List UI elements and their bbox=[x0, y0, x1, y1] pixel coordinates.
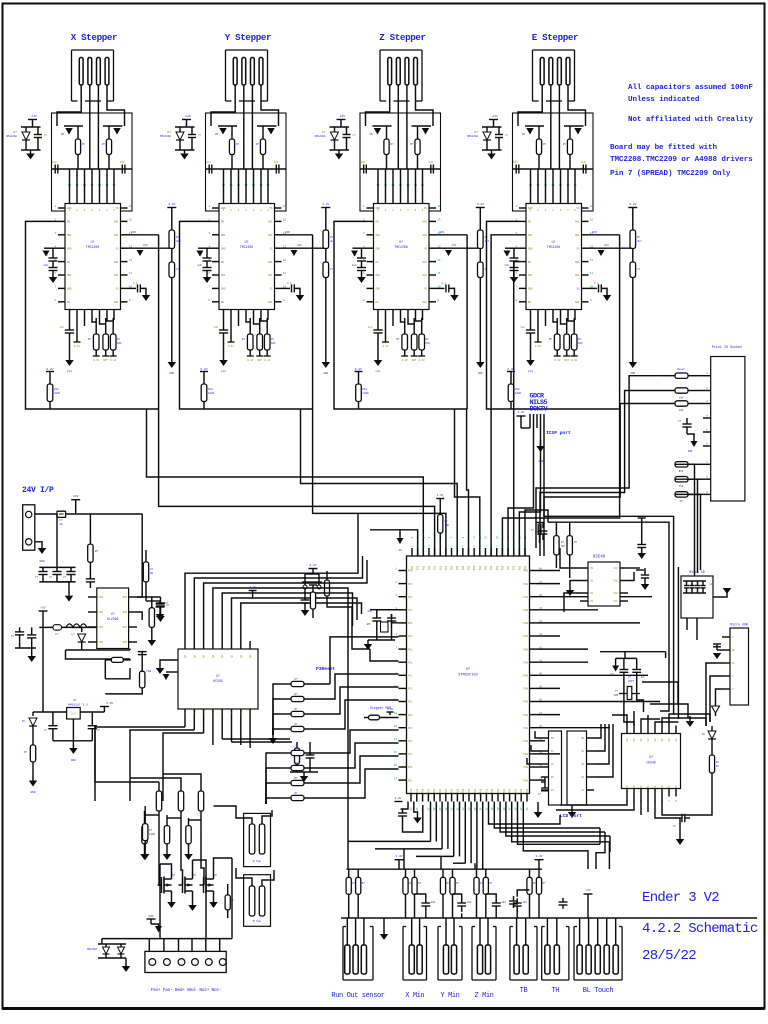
svg-text:PB1: PB1 bbox=[445, 565, 448, 570]
svg-text:MS1: MS1 bbox=[67, 274, 72, 277]
series cap C_Z1 on bus bbox=[363, 165, 365, 174]
svg-text:1uF: 1uF bbox=[429, 161, 434, 164]
pullup resistors R? R? bbox=[529, 869, 531, 877]
CH340 top wires bbox=[612, 715, 627, 726]
svg-text:R?: R? bbox=[256, 143, 260, 146]
bypass cap right of U_E bbox=[589, 287, 598, 289]
svg-text:GND: GND bbox=[478, 372, 483, 375]
svg-text:BL Touch: BL Touch bbox=[583, 987, 614, 995]
stepper driver IC U_X TMC2208 bbox=[65, 204, 121, 310]
svg-text:TMC2208: TMC2208 bbox=[86, 245, 99, 249]
svg-text:PA9: PA9 bbox=[523, 701, 528, 704]
svg-text:C?: C? bbox=[49, 576, 53, 579]
93C46 right pins bbox=[620, 567, 628, 569]
divider resistor R_Ed bbox=[630, 262, 636, 278]
thick bottom border line bbox=[3, 1007, 765, 1010]
93C46 left pins bbox=[580, 567, 588, 569]
svg-text:R?: R? bbox=[317, 597, 321, 600]
svg-text:EN: EN bbox=[376, 301, 380, 304]
driver support box X bbox=[52, 113, 133, 211]
svg-text:6.8V: 6.8V bbox=[355, 368, 362, 371]
svg-text:Z Min: Z Min bbox=[474, 992, 493, 1000]
ground below caps Z bbox=[357, 277, 366, 283]
svg-text:4k7: 4k7 bbox=[637, 239, 642, 243]
svg-text:PA1: PA1 bbox=[433, 788, 436, 793]
svg-text:R?: R? bbox=[82, 143, 86, 146]
svg-text:C?: C? bbox=[353, 254, 357, 257]
svg-text:11: 11 bbox=[283, 272, 287, 275]
resistor cap at U? output bbox=[295, 748, 300, 764]
sense resistors below U_X bbox=[95, 318, 97, 334]
svg-text:VS: VS bbox=[424, 207, 428, 210]
svg-text:16: 16 bbox=[438, 205, 442, 208]
svg-text:SMAJ26A: SMAJ26A bbox=[87, 948, 98, 951]
flyback TVS diodes bbox=[101, 939, 103, 944]
svg-text:0.1V: 0.1V bbox=[247, 359, 254, 362]
micro SD ground bbox=[713, 588, 727, 597]
connector X Min bbox=[402, 927, 404, 981]
svg-text:VS: VS bbox=[576, 207, 580, 210]
svg-text:Pin 7 (SPREAD) TMC2209 Only: Pin 7 (SPREAD) TMC2209 Only bbox=[610, 170, 731, 178]
TVS diode D_E with cap, stepper supply protection bbox=[489, 119, 498, 121]
svg-text:R?: R? bbox=[24, 751, 28, 754]
svg-text:PB1: PB1 bbox=[473, 565, 476, 570]
socket ground arrow bbox=[687, 434, 694, 441]
svg-text:11: 11 bbox=[129, 272, 133, 275]
svg-text:16: 16 bbox=[283, 205, 287, 208]
svg-text:PA9: PA9 bbox=[523, 714, 528, 717]
wires connector Y to driver box bbox=[211, 85, 235, 126]
svg-text:EN: EN bbox=[221, 301, 225, 304]
svg-text:R?: R? bbox=[294, 792, 298, 795]
crystal load cap C?b bbox=[636, 658, 638, 669]
24V input ground bbox=[38, 548, 47, 554]
svg-text:PA9: PA9 bbox=[523, 727, 528, 730]
svg-text:PA1: PA1 bbox=[485, 788, 488, 793]
svg-text:PB1: PB1 bbox=[513, 565, 516, 570]
print IO lower wires descending bbox=[694, 464, 696, 576]
svg-text:PB1: PB1 bbox=[417, 565, 420, 570]
Y Stepper motor connector J_Y bbox=[226, 49, 268, 51]
3.3V tick bbox=[387, 711, 394, 713]
power LED D? bbox=[33, 711, 43, 713]
svg-text:24V: 24V bbox=[31, 115, 37, 118]
svg-text:TMC2208: TMC2208 bbox=[240, 245, 253, 249]
feedback resistor R? bbox=[88, 544, 93, 562]
svg-text:GND: GND bbox=[221, 247, 226, 250]
svg-text:TH: TH bbox=[551, 987, 559, 995]
svg-text:28/5/22: 28/5/22 bbox=[642, 948, 696, 964]
svg-text:C?: C? bbox=[628, 676, 632, 679]
BOOT0 pulldown resistor bbox=[436, 498, 444, 500]
svg-text:VIN: VIN bbox=[99, 596, 104, 599]
svg-text:DIR: DIR bbox=[592, 231, 597, 234]
stepper driver IC U_Y TMC2208 bbox=[219, 204, 275, 310]
svg-text:15: 15 bbox=[590, 219, 594, 222]
svg-text:22Pf: 22Pf bbox=[628, 680, 635, 683]
U? bottom wire collectors bbox=[95, 727, 185, 793]
svg-text:GND: GND bbox=[324, 372, 329, 375]
MOSFET source grounds bbox=[171, 897, 173, 902]
series cap C_Z2 on bus bbox=[430, 165, 432, 174]
svg-text:GND: GND bbox=[631, 372, 636, 375]
svg-text:C?: C? bbox=[678, 420, 682, 423]
reset ground bbox=[301, 610, 310, 616]
svg-text:PA1: PA1 bbox=[480, 788, 483, 793]
LCD port header EXP1 bbox=[549, 731, 562, 805]
svg-text:OA1: OA1 bbox=[268, 261, 273, 264]
ground below cap Y bbox=[219, 360, 228, 366]
wires box Y to driver IC bbox=[223, 169, 225, 204]
LCD port wires bbox=[535, 731, 541, 738]
svg-text:PC1: PC1 bbox=[408, 753, 413, 756]
cap C_Eb below IC bbox=[530, 318, 532, 330]
ground below caps E bbox=[510, 277, 519, 283]
shift register IC U? HC595 bbox=[178, 649, 258, 709]
svg-text:0.1V: 0.1V bbox=[554, 359, 561, 362]
svg-text:3N: 3N bbox=[398, 549, 402, 552]
bus wire E direct 1 bbox=[491, 235, 519, 556]
bypass cap right of U_X bbox=[128, 287, 137, 289]
MCU top-left entry wire bbox=[370, 530, 418, 556]
svg-text:3.3V: 3.3V bbox=[437, 494, 444, 497]
svg-text:PB1: PB1 bbox=[428, 565, 431, 570]
svg-text:12M: 12M bbox=[613, 694, 618, 697]
bottom pin wires of U_E bbox=[530, 310, 532, 319]
svg-text:4.2.2 Schematic: 4.2.2 Schematic bbox=[642, 921, 758, 937]
ground for TVS Z bbox=[338, 150, 340, 154]
svg-text:PA1: PA1 bbox=[445, 788, 448, 793]
svg-text:C?: C? bbox=[538, 793, 542, 796]
svg-text:PA1: PA1 bbox=[410, 788, 413, 793]
series resistor R?5 to socket bbox=[675, 477, 688, 482]
svg-text:C?: C? bbox=[11, 635, 15, 638]
stub with tick E bbox=[537, 318, 539, 342]
bus wire Z aux bbox=[455, 409, 480, 556]
svg-text:12: 12 bbox=[129, 259, 133, 262]
svg-text:F?: F? bbox=[59, 519, 63, 522]
cap C_Xb below IC bbox=[69, 318, 71, 330]
svg-text:3.3V: 3.3V bbox=[168, 203, 175, 206]
ICSP wires to MCU bbox=[508, 428, 533, 556]
output bus wires bbox=[102, 938, 232, 940]
svg-text:PB1: PB1 bbox=[434, 565, 437, 570]
left sense resistor bbox=[143, 824, 148, 841]
svg-text:PA1: PA1 bbox=[427, 788, 430, 793]
IC U_E right pins bbox=[582, 207, 589, 209]
svg-text:OUT: OUT bbox=[123, 611, 128, 614]
svg-text:PC1: PC1 bbox=[408, 779, 413, 782]
svg-text:24V I/P: 24V I/P bbox=[22, 486, 54, 495]
svg-text:PA9: PA9 bbox=[523, 766, 528, 769]
svg-text:KAF: KAF bbox=[271, 342, 276, 345]
svg-text:104: 104 bbox=[501, 901, 506, 904]
decoupling caps left of U_X bbox=[44, 247, 58, 249]
series resistor R?3 to socket bbox=[675, 401, 688, 406]
svg-text:24V: 24V bbox=[185, 115, 191, 118]
24V source bar bbox=[147, 918, 156, 920]
svg-text:R?: R? bbox=[149, 829, 153, 832]
pullup resistors R? R? bbox=[476, 869, 478, 877]
bottom pin wires of U_X bbox=[69, 310, 71, 319]
svg-text:(H): (H) bbox=[375, 369, 381, 373]
svg-text:PA1: PA1 bbox=[491, 788, 494, 793]
svg-text:OA1: OA1 bbox=[422, 221, 427, 224]
svg-text:R18: R18 bbox=[54, 388, 59, 391]
wires connector Z to driver box bbox=[366, 85, 390, 126]
svg-text:R?: R? bbox=[88, 338, 92, 341]
svg-text:0.1: 0.1 bbox=[287, 282, 292, 285]
CH340 decoupling cap bbox=[680, 817, 682, 819]
svg-text:CS: CS bbox=[590, 592, 594, 595]
catch diode D? bbox=[81, 627, 83, 632]
svg-text:100: 100 bbox=[679, 397, 684, 400]
MOSFET drain wires bbox=[160, 864, 172, 873]
svg-text:0.1V: 0.1V bbox=[264, 359, 271, 362]
reset pull resistor bbox=[325, 580, 330, 596]
stub with tick Y bbox=[230, 318, 232, 342]
svg-text:R#T: R#T bbox=[412, 359, 417, 362]
svg-text:OA1: OA1 bbox=[114, 221, 119, 224]
power arrow left of U? bbox=[166, 671, 178, 673]
micro SD caps bbox=[686, 581, 688, 586]
bus wire across driver box E bbox=[513, 168, 593, 170]
svg-text:VCC: VCC bbox=[613, 592, 618, 595]
wire U_X pin to drop line bbox=[128, 234, 159, 236]
svg-text:R?: R? bbox=[391, 143, 395, 146]
wire U_Z pin to drop line bbox=[436, 234, 467, 236]
U? top pins bbox=[184, 641, 186, 649]
svg-text:GND: GND bbox=[528, 247, 533, 250]
svg-text:R?: R? bbox=[549, 338, 553, 341]
svg-text:VCC: VCC bbox=[613, 600, 618, 603]
svg-text:U?: U? bbox=[73, 699, 77, 702]
svg-text:GND: GND bbox=[39, 560, 44, 563]
svg-text:1uF: 1uF bbox=[43, 264, 48, 267]
svg-text:PC1: PC1 bbox=[408, 688, 413, 691]
pull-down grounds bbox=[144, 851, 146, 854]
svg-text:1uF: 1uF bbox=[513, 161, 518, 164]
svg-text:KAF: KAF bbox=[578, 342, 583, 345]
svg-text:PC1: PC1 bbox=[408, 727, 413, 730]
svg-text:15: 15 bbox=[438, 219, 442, 222]
svg-text:2M: 2M bbox=[369, 133, 373, 136]
connector Run Out sensor bbox=[342, 927, 344, 981]
svg-text:8M: 8M bbox=[367, 623, 371, 626]
svg-text:VCC: VCC bbox=[613, 567, 618, 570]
svg-text:R?: R? bbox=[574, 541, 578, 544]
svg-text:3.3V: 3.3V bbox=[518, 411, 525, 414]
svg-text:5: 5 bbox=[544, 399, 548, 407]
ground below cap Z bbox=[374, 360, 383, 366]
svg-text:0.1: 0.1 bbox=[442, 282, 447, 285]
svg-text:VS: VS bbox=[424, 247, 428, 250]
svg-text:TB: TB bbox=[520, 987, 528, 995]
diode ground wire bbox=[66, 649, 131, 651]
output resistor right bbox=[149, 608, 154, 628]
CH340 bottom pins bbox=[626, 789, 628, 797]
svg-text:D?: D? bbox=[13, 131, 17, 134]
svg-text:0.1V: 0.1V bbox=[382, 345, 389, 348]
svg-text:Board may be fitted with: Board may be fitted with bbox=[610, 144, 718, 152]
crystal Y1 8MHz with load caps bbox=[370, 609, 399, 611]
svg-text:R?: R? bbox=[236, 143, 240, 146]
svg-text:R?: R? bbox=[716, 761, 720, 764]
IC U_Z left pins bbox=[367, 207, 374, 209]
svg-text:R?: R? bbox=[543, 882, 547, 885]
svg-text:Micro SD: Micro SD bbox=[689, 570, 704, 574]
svg-text:EN: EN bbox=[67, 221, 71, 224]
svg-text:C?: C? bbox=[637, 268, 641, 271]
svg-text:R?: R? bbox=[362, 882, 366, 885]
svg-text:PA9: PA9 bbox=[523, 570, 528, 573]
wire corners near CH340 bbox=[642, 682, 678, 704]
network wires to MCU left bbox=[330, 637, 399, 684]
bus wire X drop to MCU bbox=[159, 409, 435, 556]
svg-text:Z Stepper: Z Stepper bbox=[379, 32, 425, 43]
reset cap bbox=[304, 589, 306, 600]
svg-text:Fan+ Fan- Bed+ Bed- Noz+ Noz-: Fan+ Fan- Bed+ Bed- Noz+ Noz- bbox=[151, 988, 222, 993]
svg-text:PB1: PB1 bbox=[496, 565, 499, 570]
svg-text:W Fan: W Fan bbox=[253, 860, 262, 863]
svg-text:3.3V: 3.3V bbox=[477, 203, 484, 206]
svg-text:PC1: PC1 bbox=[408, 622, 413, 625]
AMS1117 ground bbox=[72, 741, 74, 748]
svg-text:R18: R18 bbox=[208, 388, 213, 391]
micro SD card socket bbox=[681, 576, 713, 618]
svg-text:17: 17 bbox=[394, 777, 398, 780]
micro SD feed wire bbox=[677, 567, 679, 719]
svg-text:D+: D+ bbox=[732, 662, 736, 665]
svg-text:OA1: OA1 bbox=[268, 274, 273, 277]
Z Stepper motor connector J_Z bbox=[380, 49, 422, 51]
connector Y Min bbox=[437, 927, 439, 981]
svg-text:R?: R? bbox=[95, 550, 99, 553]
svg-text:3.3V: 3.3V bbox=[322, 203, 329, 206]
svg-text:C?: C? bbox=[198, 134, 202, 137]
fan connector 2 bbox=[244, 875, 271, 927]
svg-text:MS1: MS1 bbox=[528, 234, 533, 237]
svg-text:SMAJ26A: SMAJ26A bbox=[160, 135, 171, 138]
cap above MCU right bbox=[536, 522, 544, 524]
svg-text:104: 104 bbox=[467, 901, 472, 904]
svg-text:EN: EN bbox=[528, 261, 532, 264]
svg-text:100K: 100K bbox=[208, 392, 215, 395]
svg-text:R?: R? bbox=[533, 882, 537, 885]
svg-text:PA9: PA9 bbox=[523, 779, 528, 782]
CH340 crystal cluster rail bbox=[616, 657, 637, 659]
svg-text:C?: C? bbox=[165, 602, 169, 605]
wire U_E pin to drop line bbox=[589, 234, 620, 236]
svg-text:R?: R? bbox=[294, 777, 298, 780]
svg-text:1uF: 1uF bbox=[368, 326, 373, 329]
svg-text:VS: VS bbox=[269, 288, 273, 291]
wire U_Y VREF with power arrow bbox=[282, 247, 326, 249]
svg-text:OA1: OA1 bbox=[268, 234, 273, 237]
svg-text:15: 15 bbox=[394, 751, 398, 754]
svg-text:N Fan: N Fan bbox=[253, 920, 262, 923]
svg-text:PC1: PC1 bbox=[408, 609, 413, 612]
wire U_Y pin to drop line bbox=[282, 234, 313, 236]
svg-text:PB1: PB1 bbox=[451, 565, 454, 570]
pullup resistors R? R? bbox=[348, 869, 350, 877]
5V caps ground bbox=[31, 648, 33, 656]
svg-text:1uF: 1uF bbox=[213, 326, 218, 329]
svg-text:PA1: PA1 bbox=[520, 788, 523, 793]
svg-text:MS1: MS1 bbox=[221, 234, 226, 237]
svg-text:R?: R? bbox=[480, 882, 484, 885]
U? bottom pins bbox=[184, 709, 186, 717]
CH340 bottom wires bbox=[560, 797, 627, 806]
svg-text:3.3V: 3.3V bbox=[309, 564, 316, 567]
ground left of U? bbox=[160, 660, 178, 668]
svg-text:R?: R? bbox=[637, 236, 641, 239]
svg-text:3.3: 3.3 bbox=[71, 713, 76, 716]
decoupling caps left of U_Z bbox=[353, 247, 367, 249]
terminal feed verticals bbox=[148, 939, 150, 952]
svg-text:C?: C? bbox=[353, 134, 357, 137]
ground for TVS Y bbox=[184, 150, 186, 154]
svg-text:U?: U? bbox=[245, 240, 249, 244]
svg-text:12: 12 bbox=[590, 259, 594, 262]
svg-text:DIR: DIR bbox=[285, 231, 290, 234]
svg-text:R?: R? bbox=[396, 338, 400, 341]
svg-text:11: 11 bbox=[590, 272, 594, 275]
svg-text:PB1: PB1 bbox=[490, 565, 493, 570]
svg-text:GND: GND bbox=[170, 372, 175, 375]
wires box Z to driver IC bbox=[377, 169, 379, 204]
svg-text:Q?: Q? bbox=[214, 874, 218, 877]
svg-text:CS: CS bbox=[590, 580, 594, 583]
svg-text:PC1: PC1 bbox=[408, 661, 413, 664]
93C46 right ground bbox=[628, 577, 634, 581]
wires connector X to driver box bbox=[57, 85, 81, 126]
svg-text:EN: EN bbox=[528, 221, 532, 224]
regulator input wire bbox=[137, 514, 142, 597]
svg-text:PA1: PA1 bbox=[497, 788, 500, 793]
svg-text:24V: 24V bbox=[604, 244, 609, 247]
svg-text:16: 16 bbox=[590, 205, 594, 208]
CH340 ground top bbox=[689, 716, 691, 721]
3.3V bars bottom bbox=[395, 859, 404, 861]
svg-text:1uF: 1uF bbox=[504, 264, 509, 267]
svg-text:6.8V: 6.8V bbox=[200, 368, 207, 371]
IC U_E left pins bbox=[519, 207, 526, 209]
svg-text:R#T: R#T bbox=[103, 359, 108, 362]
svg-text:PA1: PA1 bbox=[468, 788, 471, 793]
svg-text:R#T: R#T bbox=[564, 359, 569, 362]
svg-text:PA9: PA9 bbox=[523, 596, 528, 599]
svg-text:1uF: 1uF bbox=[59, 326, 64, 329]
series resistor R?4 to socket bbox=[675, 462, 688, 467]
svg-text:PB1: PB1 bbox=[507, 565, 510, 570]
svg-text:EN: EN bbox=[528, 301, 532, 304]
ground below divider Z bbox=[476, 362, 485, 368]
drop wire X to MCU bus bbox=[158, 235, 160, 409]
svg-text:R#T: R#T bbox=[257, 359, 262, 362]
divider resistor R_Ec bbox=[630, 230, 636, 249]
svg-text:PA9: PA9 bbox=[523, 622, 528, 625]
AMS1117 output cap bbox=[91, 712, 93, 726]
gate feed horizontals bbox=[95, 781, 159, 783]
enable loop wire Z bbox=[334, 221, 467, 409]
svg-text:R?: R? bbox=[489, 882, 493, 885]
svg-text:OA1: OA1 bbox=[268, 301, 273, 304]
svg-text:100K: 100K bbox=[515, 392, 522, 395]
svg-text:R?: R? bbox=[117, 338, 121, 341]
aux cluster ground bbox=[156, 614, 165, 620]
series resistor R?1 to socket bbox=[675, 373, 688, 378]
